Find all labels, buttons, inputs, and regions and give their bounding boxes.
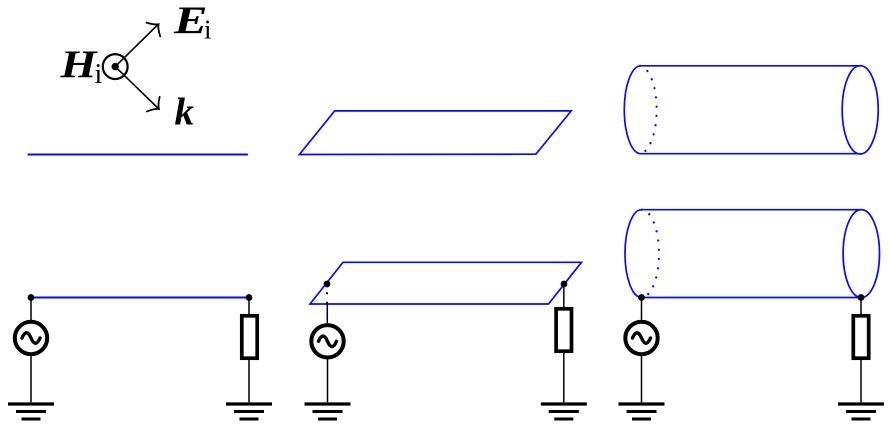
label k: [175, 91, 195, 134]
svg-text:i: i: [204, 15, 212, 45]
circuit 2: wire from resistor to ground: [563, 353, 565, 402]
circuit 3: wire from right node to resistor: [860, 298, 862, 315]
circuit 2: node dot right (on plate edge): [561, 281, 568, 288]
circuit 1: node dot left: [28, 294, 35, 301]
svg-text:E: E: [173, 0, 208, 42]
circuit 1: node dot right: [246, 294, 253, 301]
circuit 2: ground (load side): [541, 404, 587, 419]
circuit 3: wire from left node to source: [641, 298, 643, 323]
H-field out-of-page symbol (circle): [103, 54, 128, 79]
circuit 1: ground (source side): [8, 404, 54, 419]
circuit 2: wire from right node to resistor: [563, 284, 565, 307]
circuit 3: wire from source to ground: [641, 354, 643, 402]
circuit 3: ground (load side): [838, 404, 884, 419]
circuit 3: cylinder left end cap hidden dotted arc: [642, 210, 660, 298]
label H_i: [59, 43, 102, 90]
circuit 2: plate (blue parallelogram): [310, 262, 582, 304]
svg-text:i: i: [95, 59, 103, 90]
arrow E_i (wire/shaft): [115, 17, 165, 66]
plate scatterer (top row, blue parallelogram): [299, 111, 571, 155]
circuit 2: wire from plate to source: [326, 304, 328, 325]
thin-wire scatterer (top row, blue line): [28, 154, 248, 156]
label E_i: [173, 0, 212, 45]
circuit 3: node dot left (on cylinder): [638, 294, 645, 301]
circuit 3: AC source: [625, 322, 657, 354]
cylinder scatterer (top row): top edge: [640, 65, 860, 67]
circuit 1: load resistor: [242, 316, 257, 358]
arrow k (wire/shaft): [115, 67, 165, 117]
circuit 2: hidden dotted wire from node through plate: [326, 293, 328, 303]
cylinder scatterer (top row): left end cap solid arc: [624, 66, 640, 154]
circuit 2: AC source: [311, 325, 343, 357]
cylinder scatterer (top row): bottom edge: [640, 153, 860, 155]
circuit 1: wire from resistor to ground: [248, 360, 250, 402]
circuit 3: load resistor: [853, 316, 868, 358]
cylinder scatterer (top row): left end cap hidden dotted arc: [640, 66, 657, 154]
circuit 3: cylinder right end ellipse: [843, 210, 879, 298]
circuit 3: cylinder top edge: [642, 209, 862, 211]
circuit 3: cylinder left end cap solid arc: [625, 210, 642, 298]
circuit 2: wire from source to ground: [327, 357, 329, 402]
svg-text:H: H: [59, 43, 98, 86]
circuit 1: ground (load side): [226, 404, 272, 419]
H-field out-of-page symbol (center dot): [112, 63, 119, 70]
circuit 1: wire from left node to source: [30, 298, 32, 323]
circuit 1: blue wire between source and load: [31, 297, 249, 299]
circuit 1: AC source: [15, 322, 47, 354]
circuit 3: cylinder bottom edge: [642, 297, 862, 299]
circuit 2: node dot left (on plate edge): [324, 281, 331, 288]
circuit 1: wire from right node to resistor: [248, 298, 250, 315]
circuit 2: load resistor: [556, 309, 571, 351]
circuit 3: ground (source side): [619, 404, 665, 419]
svg-text:k: k: [175, 91, 195, 134]
cylinder scatterer (top row): right end ellipse: [842, 66, 878, 154]
circuit 1: wire from source to ground: [30, 354, 32, 402]
circuit 2: ground (source side): [305, 404, 351, 419]
circuit 3: wire from resistor to ground: [860, 360, 862, 402]
circuit 3: node dot right (on cylinder): [858, 294, 865, 301]
